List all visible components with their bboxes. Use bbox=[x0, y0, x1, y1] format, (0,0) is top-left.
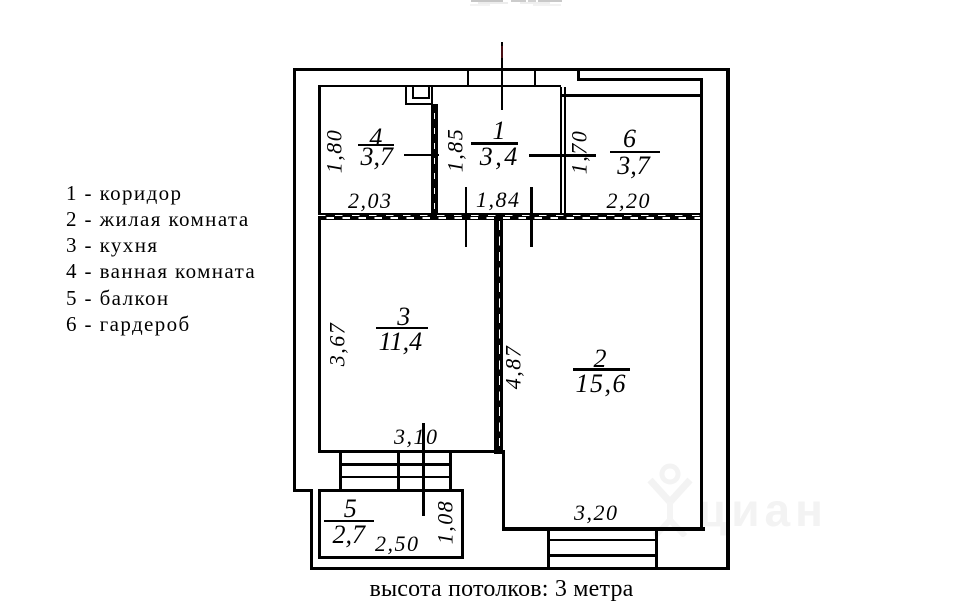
legend room list bbox=[66, 180, 256, 337]
room 2 label fraction bbox=[571, 344, 628, 374]
balcony top wall bbox=[318, 489, 463, 492]
dashed partition band across plan bbox=[318, 213, 700, 220]
room 4 label fraction bbox=[358, 123, 395, 153]
balcony window ladder verticals bbox=[339, 453, 342, 491]
niche vertical at top right bbox=[577, 71, 580, 81]
dim tick 1,84 right bbox=[530, 187, 533, 247]
room 1 label fraction bbox=[475, 116, 522, 146]
inner top wall room 6 bbox=[561, 94, 703, 97]
outer wall right bbox=[726, 68, 730, 571]
dim 3,67 rotated bbox=[324, 321, 350, 366]
outer wall bottom bbox=[310, 567, 730, 571]
room 5 label fraction bbox=[325, 494, 375, 524]
room 6 label fraction bbox=[605, 124, 655, 154]
vent shaft inner box bbox=[412, 86, 430, 100]
central hatched wall kitchen|room2 bbox=[494, 217, 503, 450]
dim 3,10 bbox=[394, 424, 439, 450]
inner right wall rooms 6 / 2 bbox=[700, 78, 703, 531]
hatched wall between rooms 4 and 1 bbox=[431, 104, 438, 214]
top band tick right bbox=[534, 71, 537, 85]
room 2 left wall lower bbox=[502, 450, 505, 531]
caption ceiling height bbox=[285, 576, 718, 603]
entry axis line with dark red tip bbox=[501, 42, 504, 111]
room 3 label fraction bbox=[378, 302, 429, 332]
window 3.20 under room 2 : verticals bbox=[547, 531, 550, 567]
outer wall left bbox=[293, 68, 296, 492]
balcony right wall bbox=[461, 489, 464, 559]
top band tick left bbox=[467, 71, 469, 85]
dim 1,80 rotated bbox=[322, 128, 348, 173]
cropped text remnants at very top bbox=[471, 0, 503, 2]
vent shaft outer box bbox=[405, 86, 433, 106]
outer wall top bbox=[293, 68, 730, 71]
balcony bottom wall bbox=[318, 556, 463, 559]
balcony window ladder horizontals bbox=[339, 463, 453, 465]
leader tick room4 3,7 bbox=[404, 154, 440, 157]
dim 1,84 bbox=[476, 187, 521, 213]
leader tick room1 3,4 to room6 bbox=[529, 154, 596, 157]
window 3.20 horizontals bbox=[547, 539, 658, 541]
dim 3,20 bbox=[574, 500, 619, 526]
room 2 bottom wall bbox=[502, 527, 706, 531]
watermark word bbox=[698, 483, 858, 537]
kitchen bottom wall bbox=[318, 450, 504, 453]
dim 4,87 rotated bbox=[501, 345, 527, 390]
balcony left wall bbox=[318, 489, 321, 559]
dim 2,20 bbox=[607, 188, 652, 214]
dim 1,08 rotated bbox=[433, 500, 459, 545]
watermark person icon bbox=[645, 462, 695, 537]
outer wall left step bbox=[293, 489, 314, 492]
outer wall left lower bbox=[310, 489, 313, 571]
central wall foot bbox=[494, 446, 503, 454]
dim 1,85 rotated bbox=[442, 127, 468, 172]
balcony door axis line bbox=[422, 423, 425, 516]
partition between rooms 1 and 6 (double line) bbox=[560, 87, 562, 219]
inner left wall rooms 4 / kitchen bbox=[318, 85, 321, 454]
dim 2,50 bbox=[375, 531, 420, 557]
dim 2,03 bbox=[348, 188, 393, 214]
dim 1,70 rotated bbox=[566, 129, 592, 174]
niche horizontal line bbox=[577, 78, 704, 81]
dim tick 1,84 left bbox=[465, 187, 468, 247]
inner top wall rooms 4 and 1 bbox=[318, 85, 562, 88]
